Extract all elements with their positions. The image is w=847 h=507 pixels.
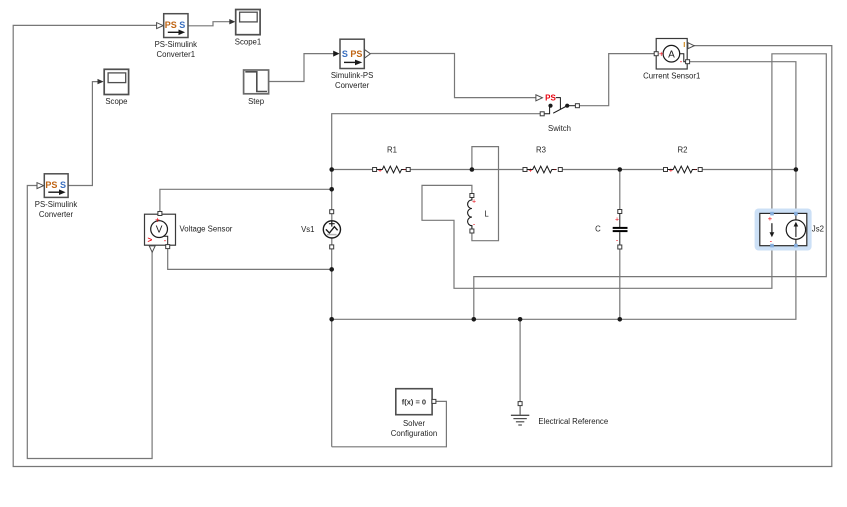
resistor R2 <box>664 146 703 175</box>
capacitor C <box>595 210 627 250</box>
svg-text:L: L <box>484 210 489 219</box>
wire capacitor branch bottom <box>619 247 621 319</box>
wire Current Sensor1 - port to node on main bus and Js2 circle top port <box>688 62 796 214</box>
node voltage sensor top junction <box>329 187 334 192</box>
source Vs1 <box>301 210 340 249</box>
wire switch-node vertical and main top bus left segment <box>332 114 543 170</box>
svg-text:Converter1: Converter1 <box>157 50 196 59</box>
node ground junction <box>518 317 523 322</box>
svg-text:+: + <box>155 215 160 224</box>
svg-text:-: - <box>164 236 167 245</box>
switch SW1 <box>536 94 580 133</box>
source Step <box>244 70 269 106</box>
source Js2 (selected) <box>755 209 824 251</box>
sensor Current Sensor1 <box>643 39 700 81</box>
svg-text:PS S: PS S <box>45 180 66 190</box>
sensor Voltage Sensor <box>145 212 233 253</box>
svg-text:Solver: Solver <box>403 419 426 428</box>
wire Step output to Simulink-PS Converter input <box>269 54 334 82</box>
svg-text:>: > <box>147 236 152 245</box>
resistor R1 <box>373 146 411 175</box>
node capacitor top junction <box>618 167 623 172</box>
svg-text:+: + <box>378 167 382 174</box>
svg-text:A: A <box>668 49 675 60</box>
svg-text:Step: Step <box>248 97 265 106</box>
svg-text:+: + <box>659 50 664 59</box>
svg-text:R1: R1 <box>387 146 397 155</box>
svg-text:Converter: Converter <box>39 210 74 219</box>
svg-text:-: - <box>680 57 683 66</box>
svg-text:R2: R2 <box>678 146 688 155</box>
converter U3 PS-Simulink Converter (left) <box>35 174 78 219</box>
node capacitor bottom junction <box>618 317 623 322</box>
converter U2 Simulink-PS Converter <box>331 39 373 90</box>
svg-text:Electrical Reference: Electrical Reference <box>538 417 608 426</box>
node bottom bus left junction <box>329 317 334 322</box>
wire PS-Simulink Converter1 output to Scope1 input <box>188 22 229 26</box>
svg-text:I: I <box>683 40 685 49</box>
svg-text:+: + <box>615 216 619 223</box>
wire L top terminal to Js2 bottom-left port <box>422 185 772 288</box>
inductor L <box>468 194 490 234</box>
svg-text:C: C <box>595 225 601 234</box>
svg-text:+: + <box>669 167 673 174</box>
svg-text:Switch: Switch <box>548 124 571 133</box>
svg-text:Configuration: Configuration <box>391 429 437 438</box>
svg-text:Current Sensor1: Current Sensor1 <box>643 72 700 81</box>
svg-text:+: + <box>528 167 532 174</box>
svg-text:Converter: Converter <box>335 81 370 90</box>
wire bottom bus <box>332 246 796 319</box>
svg-text:+: + <box>472 198 476 205</box>
svg-text:Simulink-PS: Simulink-PS <box>331 71 373 80</box>
svg-text:Voltage Sensor: Voltage Sensor <box>180 225 233 234</box>
wire main bus R3 to R2 <box>560 169 665 171</box>
node js2-wire bottom junction <box>472 317 477 322</box>
wire PS-Simulink Converter output to Scope input <box>68 82 98 186</box>
svg-text:Scope: Scope <box>105 97 127 106</box>
svg-text:Scope1: Scope1 <box>235 38 261 47</box>
svg-text:S PS: S PS <box>342 49 363 59</box>
solver configuration block <box>391 389 437 439</box>
wire main bus R2 to right node <box>700 169 796 171</box>
wire Voltage Sensor PS output to PS-Simulink Converter input <box>27 186 152 459</box>
scope Scope1 <box>235 10 261 47</box>
svg-text:PS-Simulink: PS-Simulink <box>155 40 198 49</box>
node L loop junction <box>470 167 475 172</box>
svg-text:f(x) = 0: f(x) = 0 <box>402 397 426 406</box>
wire Js2 top port detour loop <box>474 54 827 320</box>
wire Voltage Sensor top branch <box>160 189 332 213</box>
wire ground branch <box>519 319 521 402</box>
resistor R3 <box>523 146 562 175</box>
converter U1 PS-Simulink Converter1 <box>155 14 198 59</box>
node bus-left junction <box>329 167 334 172</box>
wire Solver Configuration port <box>332 401 447 446</box>
svg-text:PS S: PS S <box>165 20 186 30</box>
svg-text:PS: PS <box>545 94 556 103</box>
svg-text:Js2: Js2 <box>812 225 824 234</box>
svg-text:V: V <box>156 225 163 236</box>
scope Scope <box>104 69 128 106</box>
svg-text:R3: R3 <box>536 146 546 155</box>
wire L bottom loop to main bus node <box>472 147 499 241</box>
wire Voltage Sensor bottom branch <box>168 247 332 269</box>
wire left vertical: bus node down through Vs1 to Solver Configuration <box>331 170 333 212</box>
wire Simulink-PS Converter output to Switch PS control input <box>371 54 536 98</box>
wire main bus R1 to R3 <box>408 169 525 171</box>
node voltage sensor bottom junction <box>329 267 334 272</box>
wire capacitor branch top <box>619 170 621 212</box>
svg-text:Vs1: Vs1 <box>301 225 314 234</box>
svg-text:PS-Simulink: PS-Simulink <box>35 200 78 209</box>
node bus right junction <box>794 167 799 172</box>
ground Electrical Reference <box>511 402 608 426</box>
wire Switch output to Current Sensor1 + port <box>577 54 656 106</box>
